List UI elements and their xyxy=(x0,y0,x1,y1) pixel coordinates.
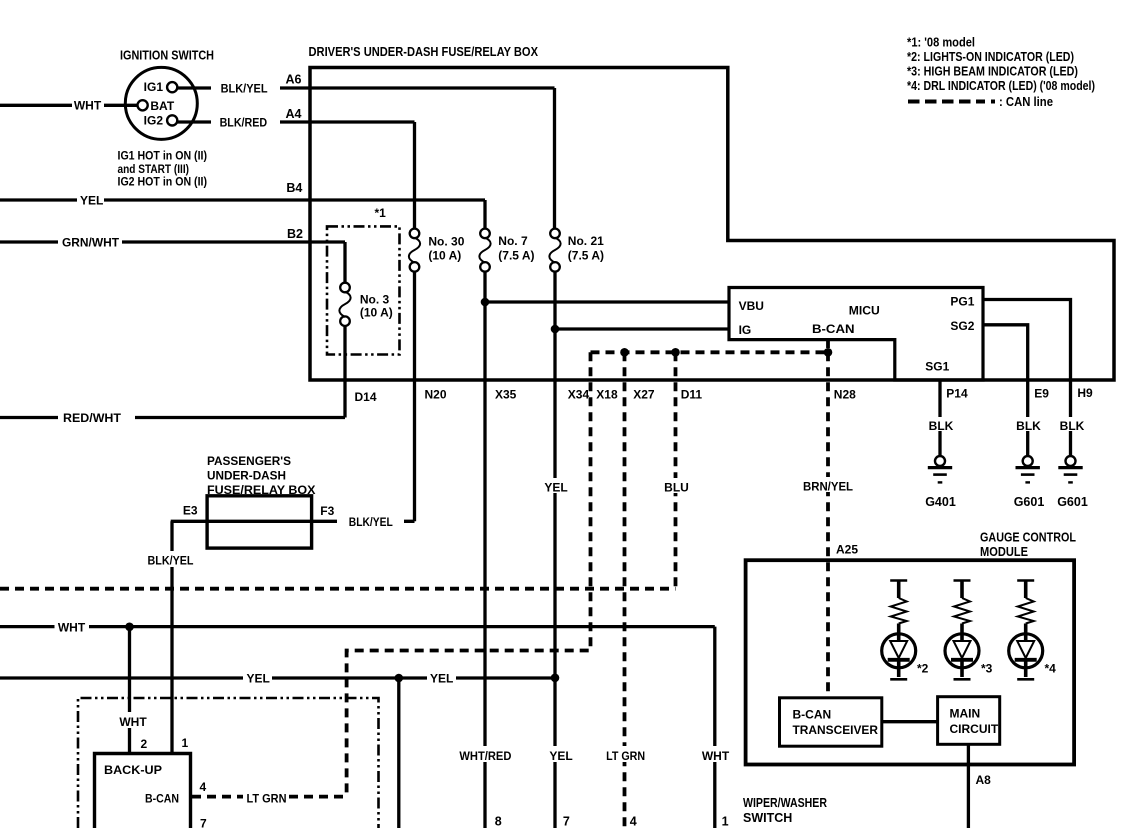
svg-text:No. 7: No. 7 xyxy=(498,234,528,248)
wire SG2 to E9 ground xyxy=(983,325,1028,456)
svg-text:E9: E9 xyxy=(1034,387,1049,401)
dash-dot box around BACK-UP module xyxy=(78,698,379,828)
node CAN N28 junction xyxy=(824,348,833,357)
svg-text:WHT: WHT xyxy=(58,621,86,635)
wire E3 F3 BLK/YEL through passenger's box xyxy=(171,520,337,523)
svg-text:X27: X27 xyxy=(633,388,655,402)
svg-text:PG1: PG1 xyxy=(950,295,974,309)
svg-text:X18: X18 xyxy=(596,388,618,402)
wire A8 from main circuit to bottom xyxy=(967,744,970,828)
svg-text:BLK: BLK xyxy=(1016,419,1041,433)
wire fuse No.21 down through X34 YEL to pin 7 xyxy=(553,271,556,828)
wire WHT to ignition BAT xyxy=(0,104,137,107)
svg-text:BLU: BLU xyxy=(664,481,689,495)
main circuit box xyxy=(938,697,1000,745)
LED indicator *2 lights-on with resistor xyxy=(882,581,916,680)
svg-text:GAUGE CONTROL: GAUGE CONTROL xyxy=(980,531,1076,545)
svg-text:1: 1 xyxy=(722,815,729,828)
svg-text:SG2: SG2 xyxy=(950,319,974,333)
svg-text:X35: X35 xyxy=(495,388,517,402)
svg-text:CIRCUIT: CIRCUIT xyxy=(950,722,999,736)
svg-text:1: 1 xyxy=(182,736,189,750)
svg-text:BLK: BLK xyxy=(929,419,954,433)
wire WHT vertical to wiper switch pin 1 xyxy=(713,627,716,828)
CAN bus dashed horizontal under MICU xyxy=(591,350,829,354)
dash-dot box *1 around fuse No.3 xyxy=(327,226,400,354)
svg-text:*2: *2 xyxy=(917,662,929,676)
fuse No.30 (10 A) xyxy=(409,229,420,272)
svg-text:*2: LIGHTS-ON INDICATOR (LED): *2: LIGHTS-ON INDICATOR (LED) xyxy=(907,49,1074,64)
svg-text:*3: *3 xyxy=(981,662,993,676)
svg-text:No. 21: No. 21 xyxy=(568,234,604,248)
CAN line X18 vertical and jog left xyxy=(347,352,591,796)
legend CAN line dash sample xyxy=(908,100,985,104)
svg-text:8: 8 xyxy=(495,815,502,828)
svg-text:FUSE/RELAY BOX: FUSE/RELAY BOX xyxy=(207,483,316,497)
driver's under-dash fuse/relay box outline xyxy=(310,68,1114,381)
svg-text:B-CAN: B-CAN xyxy=(793,708,832,722)
svg-text:B-CAN: B-CAN xyxy=(812,322,855,336)
svg-text:DRIVER'S UNDER-DASH FUSE/RELAY: DRIVER'S UNDER-DASH FUSE/RELAY BOX xyxy=(309,45,539,59)
svg-text:VBU: VBU xyxy=(739,299,764,313)
B-CAN transceiver box xyxy=(780,698,882,746)
BACK-UP module box outline xyxy=(95,754,191,828)
svg-text:YEL: YEL xyxy=(430,672,453,686)
svg-text:B2: B2 xyxy=(287,227,303,241)
svg-text:A8: A8 xyxy=(976,773,992,787)
ignition switch body xyxy=(125,67,197,139)
svg-text:WHT: WHT xyxy=(74,99,102,113)
svg-text:BLK/YEL: BLK/YEL xyxy=(349,515,393,529)
svg-text:4: 4 xyxy=(630,815,637,828)
svg-text:B-CAN: B-CAN xyxy=(145,792,179,806)
ground G601 (H9) xyxy=(1058,456,1082,482)
svg-text:(10 A): (10 A) xyxy=(428,249,461,263)
svg-text:G601: G601 xyxy=(1014,495,1045,509)
svg-text:WHT/RED: WHT/RED xyxy=(459,749,511,763)
wire fuse No.30 to N20 to BLK/YEL hook xyxy=(404,271,415,521)
svg-text:B4: B4 xyxy=(286,181,302,195)
svg-text:BLK: BLK xyxy=(1060,419,1085,433)
svg-text:4: 4 xyxy=(200,780,207,794)
CAN line D11 BLU vertical xyxy=(674,352,678,588)
svg-text:BRN/YEL: BRN/YEL xyxy=(803,480,853,494)
svg-text:*3: HIGH BEAM INDICATOR (LED): *3: HIGH BEAM INDICATOR (LED) xyxy=(907,64,1078,79)
ignition terminal IG2 xyxy=(167,115,177,125)
LED indicator *4 DRL with resistor xyxy=(1009,581,1043,680)
svg-text:No. 30: No. 30 xyxy=(428,235,464,249)
svg-text:SG1: SG1 xyxy=(925,360,949,374)
wire A6 vertical to fuse No.21 xyxy=(553,88,556,229)
svg-text:E3: E3 xyxy=(183,504,198,518)
svg-text:IG2: IG2 xyxy=(144,114,164,128)
wiper switch pin numbers xyxy=(495,815,729,828)
fuse No.3 (10 A) xyxy=(339,283,350,326)
svg-text:BLK/YEL: BLK/YEL xyxy=(221,82,268,96)
fuse No.21 (7.5 A) xyxy=(549,229,560,272)
wire YEL to fuse box B4 xyxy=(0,198,485,201)
node VBU junction on fuse No.7 line xyxy=(481,298,490,307)
passenger's under-dash fuse/relay box outline xyxy=(207,496,312,548)
CAN line N28 BRN/YEL vertical to gauge module xyxy=(826,352,830,698)
svg-text:No. 3: No. 3 xyxy=(360,293,390,307)
wire A4 vertical to fuse No.30 xyxy=(413,122,416,229)
svg-text:TRANSCEIVER: TRANSCEIVER xyxy=(793,723,879,737)
node YEL junction right xyxy=(551,674,560,683)
ignition hot notes xyxy=(118,151,208,189)
svg-text:*1: '08 model: *1: '08 model xyxy=(907,35,975,50)
LED indicator *3 high beam with resistor xyxy=(945,581,979,680)
svg-text:G401: G401 xyxy=(925,495,956,509)
svg-text:MAIN: MAIN xyxy=(950,707,981,721)
svg-text:X34: X34 xyxy=(568,388,590,402)
svg-text:N20: N20 xyxy=(425,388,447,402)
wire YEL vertical to bottom xyxy=(397,678,400,828)
wire B2 vertical to fuse No.3 xyxy=(343,242,346,283)
svg-text:*1: *1 xyxy=(375,206,387,220)
svg-text:7: 7 xyxy=(200,817,207,828)
wire fuse No.3 to D14 to RED/WHT xyxy=(0,325,345,417)
svg-text:A25: A25 xyxy=(836,543,858,557)
fuse No.7 (7.5 A) xyxy=(479,229,490,272)
svg-text:N28: N28 xyxy=(834,388,856,402)
svg-text:BACK-UP: BACK-UP xyxy=(104,763,162,777)
wire YEL horizontal xyxy=(0,676,555,679)
wire SG1 to P14 ground xyxy=(938,380,941,456)
node CAN X27 junction xyxy=(620,348,629,357)
wire B-CAN transceiver to main circuit xyxy=(882,720,938,723)
wire BLK/RED from IG2 to fuse box A4 xyxy=(178,120,415,123)
ground G401 xyxy=(928,456,952,482)
svg-text:: CAN line: : CAN line xyxy=(999,94,1053,109)
svg-text:WHT: WHT xyxy=(119,715,147,729)
svg-text:LT GRN: LT GRN xyxy=(606,749,645,763)
svg-text:(7.5 A): (7.5 A) xyxy=(498,249,534,263)
node IG junction on fuse No.21 line xyxy=(551,325,560,334)
svg-text:7: 7 xyxy=(563,815,570,828)
svg-text:*4: *4 xyxy=(1045,662,1057,676)
svg-text:IG2 HOT in ON (II): IG2 HOT in ON (II) xyxy=(118,177,208,189)
svg-text:YEL: YEL xyxy=(80,194,103,208)
svg-text:SWITCH: SWITCH xyxy=(743,811,792,825)
ignition terminal BAT xyxy=(138,100,148,110)
svg-text:D11: D11 xyxy=(681,388,703,402)
CAN line LT GRN to BACK-UP pin 4 xyxy=(192,795,347,799)
svg-text:WIPER/WASHER: WIPER/WASHER xyxy=(743,796,827,810)
svg-text:MICU: MICU xyxy=(849,304,880,318)
wire fuse No.7 down through X35 to WHT/RED pin 8 xyxy=(483,271,486,828)
svg-text:LT GRN: LT GRN xyxy=(247,792,287,806)
connector labels A6 A4 B4 B2 xyxy=(286,73,304,242)
svg-text:(7.5 A): (7.5 A) xyxy=(568,249,604,263)
wire WHT vertical to BACK-UP pin 2 xyxy=(128,627,131,754)
svg-text:D14: D14 xyxy=(355,390,377,404)
svg-text:BLK/RED: BLK/RED xyxy=(220,116,268,130)
wire B4 vertical to fuse No.7 xyxy=(483,200,486,229)
wire from E3 down to BACK-UP pin 1 xyxy=(170,521,173,753)
svg-text:MODULE: MODULE xyxy=(980,545,1028,559)
svg-text:PASSENGER'S: PASSENGER'S xyxy=(207,454,291,468)
wire IG from fuse No.21 to MICU xyxy=(555,327,729,330)
svg-text:2: 2 xyxy=(141,737,148,751)
svg-text:YEL: YEL xyxy=(549,749,572,763)
svg-text:IGNITION SWITCH: IGNITION SWITCH xyxy=(120,49,214,63)
wire GRN/WHT to fuse box B2 xyxy=(0,240,345,243)
ground G601 (E9) xyxy=(1016,456,1040,482)
node WHT junction xyxy=(125,623,134,632)
svg-text:BLK/YEL: BLK/YEL xyxy=(148,554,194,568)
CAN line X27 LT GRN vertical to wiper switch pin 4 xyxy=(623,352,627,828)
MICU box outline xyxy=(729,288,983,381)
legend notes xyxy=(907,35,1095,110)
svg-text:*4: DRL INDICATOR (LED) ('08 m: *4: DRL INDICATOR (LED) ('08 model) xyxy=(907,78,1095,93)
svg-text:IG1 HOT in ON (II): IG1 HOT in ON (II) xyxy=(118,151,208,163)
svg-text:BAT: BAT xyxy=(150,99,174,113)
CAN line dashed horizontal to left edge xyxy=(0,587,676,591)
svg-text:GRN/WHT: GRN/WHT xyxy=(62,236,120,250)
gauge control module box outline xyxy=(746,560,1075,764)
ignition terminal IG1 xyxy=(167,82,177,92)
svg-text:A4: A4 xyxy=(286,107,302,121)
svg-text:P14: P14 xyxy=(946,387,968,401)
svg-text:RED/WHT: RED/WHT xyxy=(63,411,122,425)
svg-text:and START (III): and START (III) xyxy=(118,164,190,176)
svg-text:H9: H9 xyxy=(1077,386,1093,400)
svg-text:WHT: WHT xyxy=(702,749,730,763)
svg-text:YEL: YEL xyxy=(247,672,270,686)
node CAN D11 junction xyxy=(671,348,680,357)
svg-text:YEL: YEL xyxy=(544,481,567,495)
wire PG1 to H9 ground xyxy=(983,300,1071,457)
svg-text:G601: G601 xyxy=(1057,495,1088,509)
wire VBU from fuse No.7 to MICU xyxy=(485,300,729,303)
wire WHT horizontal to wiper switch xyxy=(0,625,715,628)
svg-text:IG1: IG1 xyxy=(144,80,164,94)
svg-text:A6: A6 xyxy=(286,73,302,87)
svg-text:IG: IG xyxy=(739,323,752,337)
CAN stub from MICU B-CAN pin to node xyxy=(826,339,830,352)
svg-text:F3: F3 xyxy=(320,504,334,518)
svg-text:UNDER-DASH: UNDER-DASH xyxy=(207,469,286,483)
wire BLK/YEL from IG1 to fuse box A6 xyxy=(178,86,555,89)
node YEL junction left xyxy=(395,674,404,683)
svg-text:(10 A): (10 A) xyxy=(360,306,393,320)
